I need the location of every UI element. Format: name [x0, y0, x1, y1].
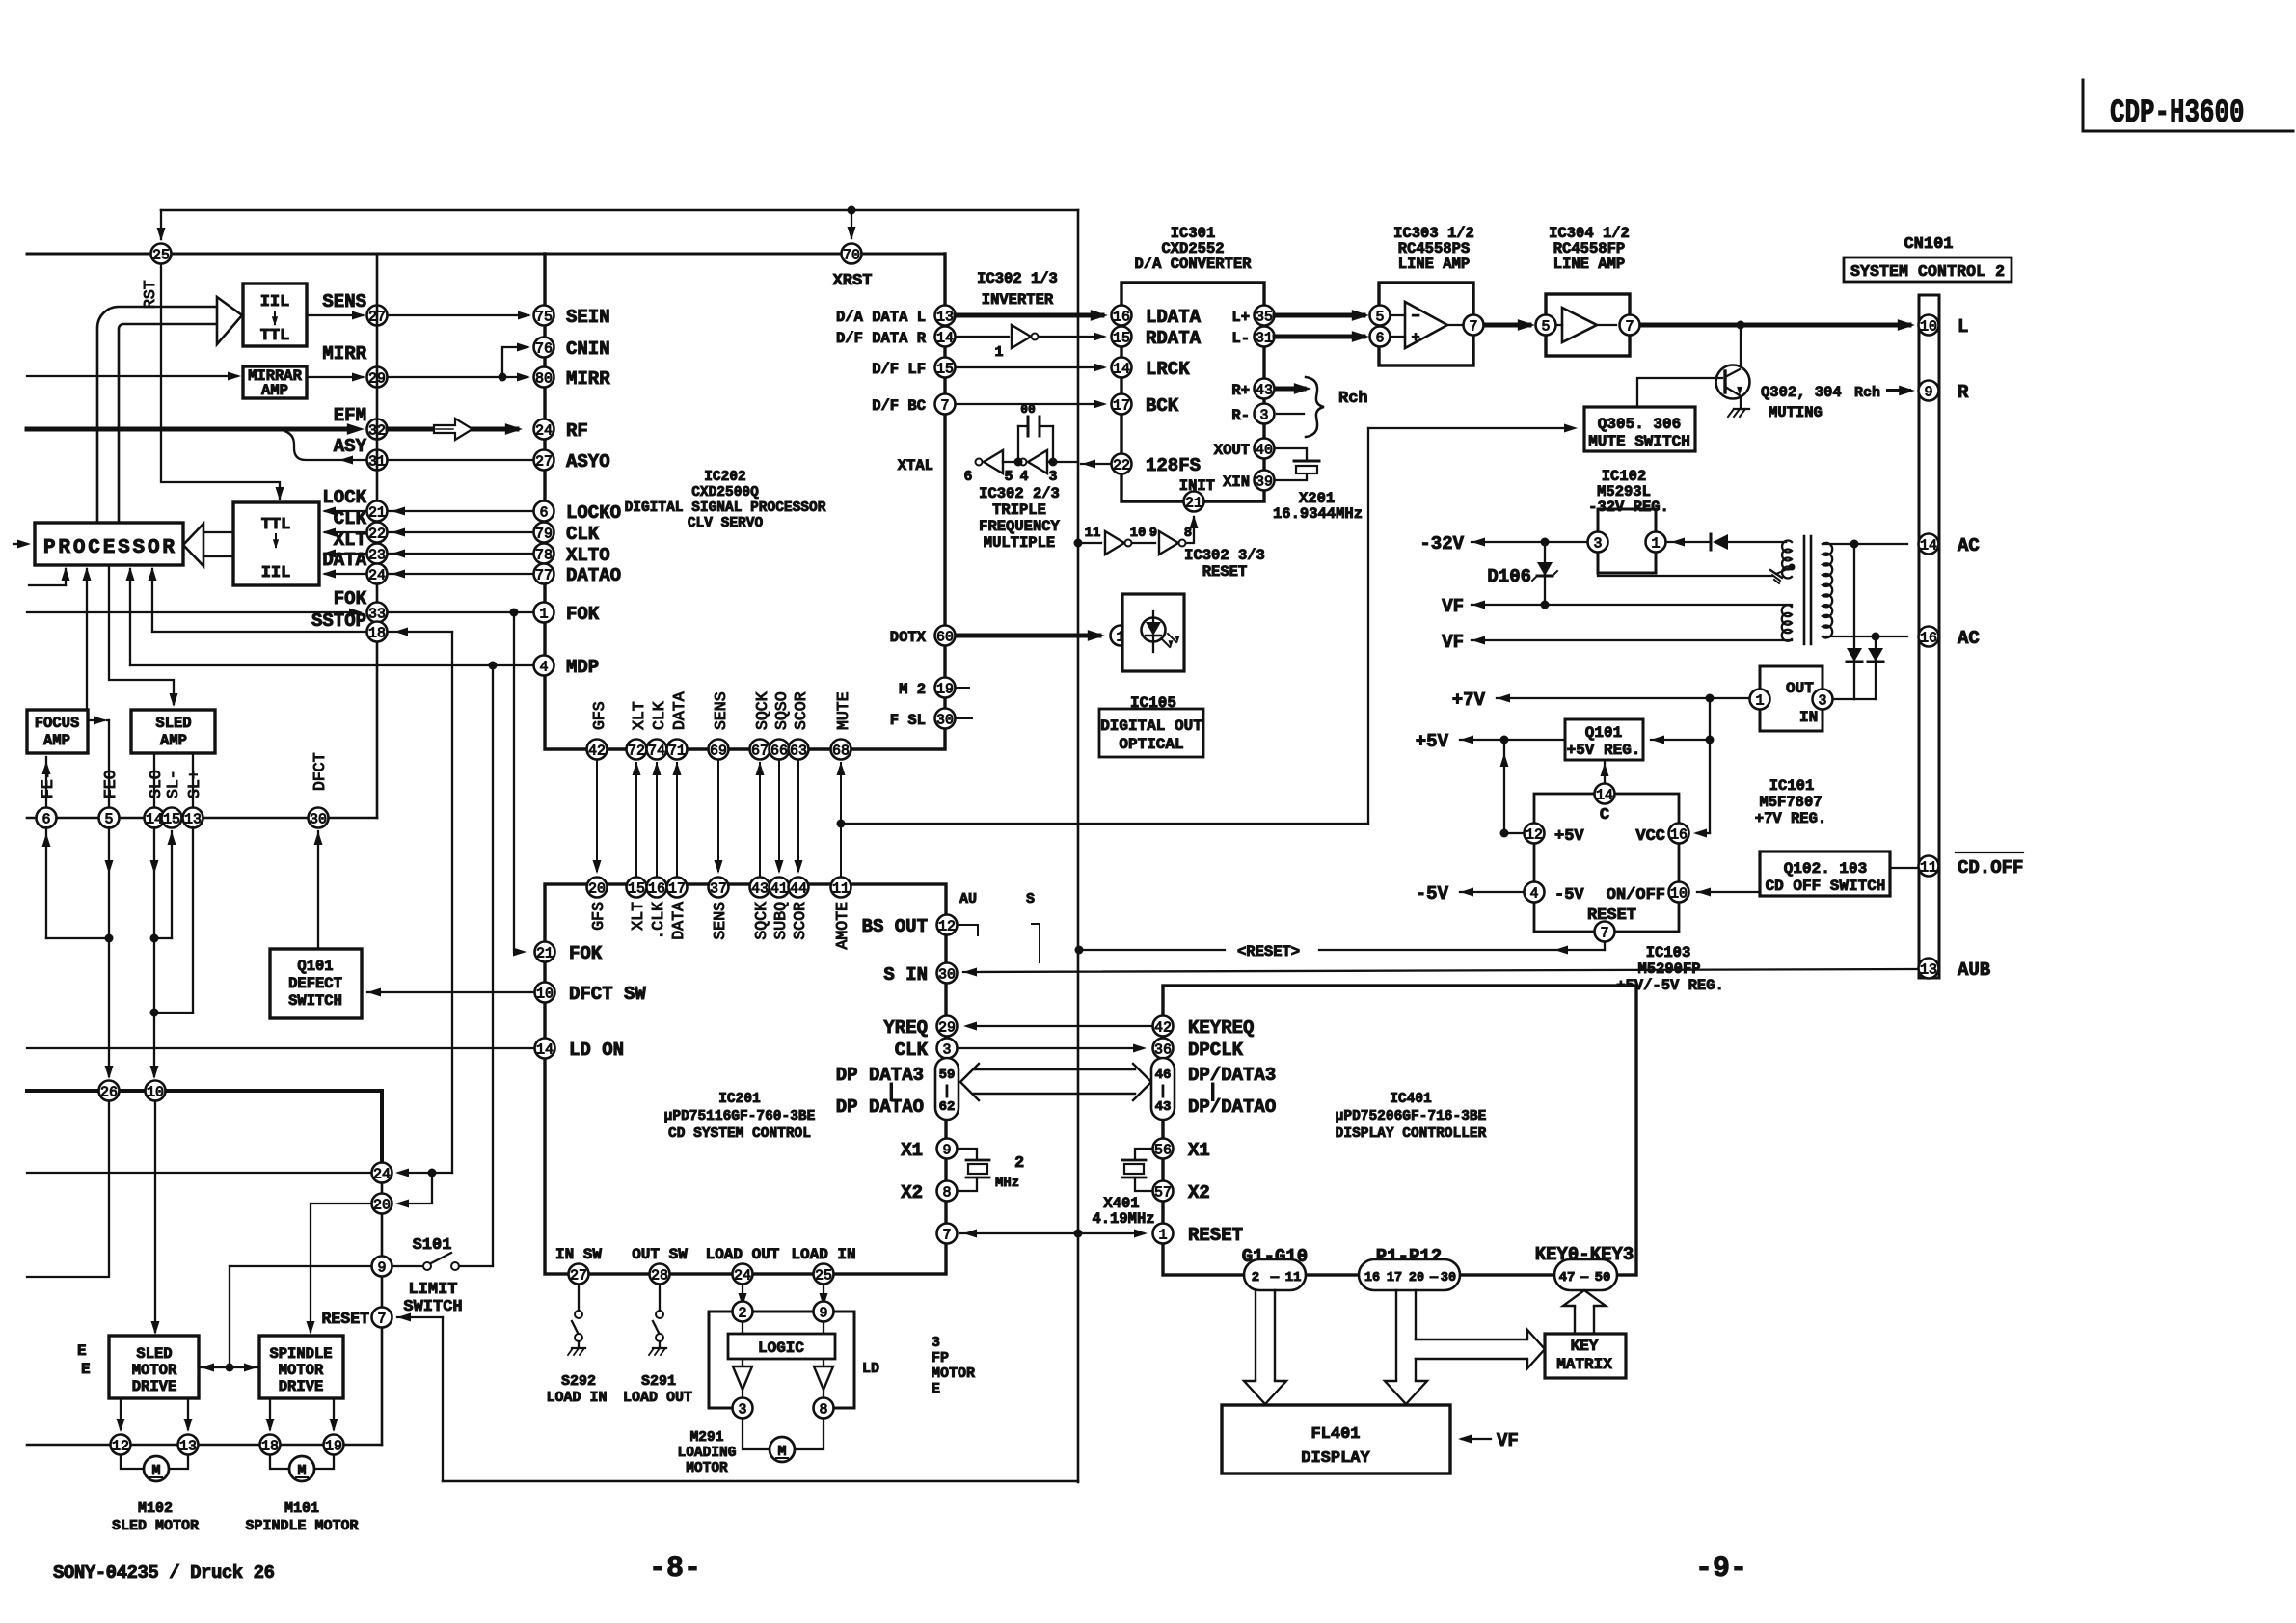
wire SCOR down 63 to 44 — [797, 760, 799, 871]
svg-text:DIGITAL OUT: DIGITAL OUT — [1100, 717, 1202, 735]
svg-text:R: R — [1958, 382, 1969, 403]
svg-text:9: 9 — [942, 1142, 951, 1158]
node IC102 pin 3 — [1588, 532, 1608, 553]
svg-text:24: 24 — [734, 1267, 751, 1284]
block IC105 — [1122, 594, 1184, 671]
svg-text:AMP: AMP — [43, 732, 70, 749]
svg-text:CLK: CLK — [650, 701, 668, 730]
svg-text:1: 1 — [1158, 1227, 1167, 1243]
node junction dot RESET on central vertical — [1075, 946, 1084, 955]
svg-text:-5V: -5V — [1416, 883, 1449, 905]
svg-text:16: 16 — [1364, 1271, 1380, 1285]
svg-text:XLTO: XLTO — [566, 545, 610, 566]
svg-text:AC: AC — [1958, 628, 1980, 649]
svg-text:CD SYSTEM CONTROL: CD SYSTEM CONTROL — [668, 1126, 811, 1142]
svg-text:—: — — [1429, 1271, 1439, 1285]
svg-text:AMOTE: AMOTE — [833, 902, 851, 950]
wire mute line into mute switch — [1368, 427, 1572, 429]
svg-text:SQCK: SQCK — [752, 902, 770, 940]
wire Q101 bottom from pin14 C — [1604, 760, 1606, 783]
node IC201 pin 20 GFS — [587, 878, 608, 898]
svg-text:74: 74 — [648, 743, 665, 759]
svg-text:66: 66 — [770, 743, 788, 759]
svg-text:5: 5 — [1004, 469, 1013, 485]
svg-text:DIGITAL SIGNAL PROCESSOR: DIGITAL SIGNAL PROCESSOR — [625, 500, 826, 516]
wire FOK row from left edge — [27, 611, 352, 613]
svg-text:18: 18 — [368, 625, 386, 641]
title CDP-H3600 — [2110, 95, 2245, 132]
svg-text:SL-: SL- — [164, 770, 182, 798]
wire PROCESSOR to FOCUS AMP — [86, 569, 88, 710]
wire SL+ pin13 up to SLED AMP — [192, 753, 194, 808]
node logic pin 3 — [733, 1398, 753, 1419]
wire L+ thick 35 to 5 — [1275, 313, 1364, 318]
svg-text:CDP-H3600: CDP-H3600 — [2110, 95, 2245, 132]
svg-text:MOTOR: MOTOR — [686, 1461, 728, 1476]
wire LOCK row — [325, 510, 366, 512]
wire y=263 long line through pin 25 and IC202 top edge — [27, 253, 945, 256]
svg-text:43: 43 — [751, 880, 769, 897]
op-amp triangle IC304 — [1562, 308, 1597, 342]
svg-text:LINE AMP: LINE AMP — [1553, 256, 1625, 273]
block SPINDLE MOTOR DRIVE — [259, 1336, 343, 1398]
svg-text:MOTOR: MOTOR — [132, 1362, 177, 1379]
svg-text:D/A CONVERTER: D/A CONVERTER — [1135, 256, 1253, 273]
block Q101 DEFECT SWITCH — [270, 949, 362, 1018]
svg-text:25: 25 — [815, 1267, 832, 1284]
wire SSTOP branch down x=469 — [451, 632, 453, 1173]
svg-text:C: C — [1600, 806, 1609, 825]
rectifier diode 1 — [1853, 544, 1855, 699]
block PROCESSOR — [35, 523, 183, 565]
svg-text:MIRR: MIRR — [566, 368, 610, 390]
node IC304 pin 5 — [1536, 315, 1556, 336]
svg-text:17: 17 — [1387, 1271, 1402, 1285]
svg-text:15: 15 — [936, 361, 954, 377]
node CN101 pin 9 R — [1919, 381, 1939, 401]
svg-text:62: 62 — [939, 1099, 956, 1115]
wire bottom RESET return y=1536 — [443, 1480, 1078, 1483]
node IC202 pin 6 LOCKO — [534, 501, 554, 522]
bus arrow P1-P12 to FL401 — [1395, 1290, 1397, 1381]
wire +5V down to pin12 — [1503, 740, 1505, 833]
node junction dot at pin70 drop — [848, 206, 856, 215]
svg-text:75: 75 — [535, 309, 553, 325]
svg-text:17: 17 — [1113, 397, 1130, 414]
svg-text:1: 1 — [539, 606, 548, 622]
block logic enclosure — [709, 1312, 854, 1408]
svg-text:39: 39 — [1256, 473, 1273, 490]
wire thick row y=1131 through pins 26 10 — [27, 1089, 382, 1093]
svg-text:PROCESSOR: PROCESSOR — [43, 537, 175, 559]
op IC301 D/A converter box — [1121, 283, 1264, 501]
node IC201 pin 16 .CLK — [647, 878, 667, 898]
svg-text:7: 7 — [1625, 318, 1634, 335]
wire drop to pin 70 — [851, 210, 852, 238]
svg-text:3: 3 — [738, 1401, 746, 1418]
node junction dot mute branch — [837, 820, 846, 828]
svg-text:M291: M291 — [690, 1430, 724, 1446]
bus branch to KEY MATRIX — [1416, 1339, 1527, 1340]
symbol hollow flow arrow on EFM line — [434, 419, 473, 440]
node IC201 pin 41 SUBQ — [770, 878, 790, 898]
svg-text:46: 46 — [1155, 1068, 1172, 1083]
bus DP DATA bidirectional — [960, 1064, 979, 1100]
svg-text:7: 7 — [1600, 925, 1608, 941]
svg-text:42: 42 — [588, 743, 606, 759]
svg-text:4: 4 — [1529, 885, 1538, 902]
wire FOK pin33 to pin1 — [388, 611, 533, 613]
svg-text:INVERTER: INVERTER — [982, 291, 1054, 309]
switch S291 LOAD OUT — [659, 1285, 661, 1310]
svg-text:R-: R- — [1231, 407, 1250, 424]
svg-text:—: — — [1580, 1270, 1589, 1285]
motor M102 sled — [121, 1455, 143, 1469]
svg-text:S101: S101 — [413, 1236, 452, 1255]
svg-text:13: 13 — [179, 1438, 197, 1454]
node IC103 pin 12 — [1525, 824, 1545, 844]
svg-text:7: 7 — [942, 1227, 951, 1243]
svg-text:RESET: RESET — [1188, 1225, 1243, 1246]
node IC103 pin 7 — [1595, 922, 1615, 942]
wire secondary top to AC pin 14 — [1823, 543, 1907, 545]
svg-text:67: 67 — [751, 743, 769, 759]
wire connector column vertical x=391 — [376, 254, 379, 818]
wire PROCESSOR to MDP line — [129, 569, 131, 665]
svg-text:4: 4 — [1019, 469, 1028, 485]
svg-text:E: E — [77, 1342, 87, 1360]
svg-text:X1: X1 — [1188, 1140, 1210, 1161]
node pin 25 — [151, 244, 172, 264]
wire DFCT up from defect switch — [317, 831, 319, 949]
svg-text:9: 9 — [1149, 526, 1157, 541]
svg-text:8: 8 — [819, 1401, 827, 1418]
node IC202 pin 80 MIRR — [534, 367, 554, 388]
inverter 1 of IC302 — [956, 336, 1009, 338]
wire stub pin 19 — [957, 687, 969, 689]
svg-text:72: 72 — [628, 743, 645, 759]
svg-text:FOK: FOK — [566, 604, 600, 625]
wire AUB line — [963, 969, 1917, 972]
svg-text:MHz: MHz — [995, 1176, 1019, 1191]
svg-text:LOADING: LOADING — [678, 1446, 737, 1461]
svg-text:3: 3 — [932, 1335, 940, 1351]
block FL401 DISPLAY — [1222, 1405, 1450, 1474]
svg-text:1: 1 — [1755, 692, 1764, 709]
block IC103 outline — [1534, 794, 1679, 932]
svg-text:XRST: XRST — [833, 272, 873, 290]
svg-text:FOK: FOK — [569, 943, 603, 964]
wire LD ON line — [27, 1047, 533, 1049]
svg-text:6: 6 — [1375, 330, 1384, 346]
svg-text:BCK: BCK — [1146, 395, 1179, 417]
node IC201 pin 15 XLT — [627, 878, 647, 898]
node junction dot Q101 branch — [1706, 736, 1715, 744]
svg-text:S: S — [1026, 891, 1035, 907]
svg-text:LOGIC: LOGIC — [758, 1339, 804, 1357]
svg-text:63: 63 — [790, 743, 807, 759]
wire BCK row — [956, 403, 1103, 405]
svg-text:TRIPLE: TRIPLE — [992, 501, 1046, 519]
node logic pin 2 — [733, 1302, 753, 1322]
svg-text:12: 12 — [938, 918, 956, 934]
node pin 32 EFM — [367, 419, 388, 440]
wire SLO down to pin 10 — [153, 827, 155, 1076]
svg-text:5: 5 — [1375, 309, 1384, 325]
svg-text:XIN: XIN — [1223, 473, 1250, 491]
node CN101 pin 13 AUB — [1919, 959, 1939, 979]
svg-text:VF: VF — [1442, 596, 1464, 617]
wire KEYREQ 42 to 29 — [974, 1025, 1152, 1027]
node IC201 pin 7 RESET — [937, 1224, 958, 1244]
node junction dot SLO — [150, 934, 159, 943]
svg-text:14: 14 — [536, 1041, 554, 1058]
svg-text:24: 24 — [368, 567, 386, 583]
svg-text:LINE AMP: LINE AMP — [1398, 256, 1470, 273]
svg-text:LIMIT: LIMIT — [408, 1281, 457, 1299]
svg-text:SCOR: SCOR — [791, 902, 809, 940]
svg-text:35: 35 — [1256, 309, 1273, 325]
svg-text:18: 18 — [261, 1438, 279, 1454]
node IC202 pin 75 SEIN — [534, 306, 554, 326]
block SYSTEM CONTROL 2 — [1844, 257, 2012, 282]
svg-text:<RESET>: <RESET> — [1237, 943, 1300, 960]
svg-text:31: 31 — [1256, 330, 1273, 346]
crystal X202 — [959, 1149, 977, 1159]
svg-text:3: 3 — [1259, 407, 1268, 423]
svg-text:RST: RST — [141, 280, 159, 309]
wire between motor drives — [199, 1366, 259, 1368]
svg-text:24: 24 — [535, 422, 553, 439]
svg-text:+5V REG.: +5V REG. — [1567, 742, 1641, 759]
svg-text:IC302 2/3: IC302 2/3 — [979, 485, 1060, 502]
svg-text:MATRIX: MATRIX — [1556, 1356, 1612, 1373]
svg-text:5: 5 — [104, 811, 113, 827]
svg-text:SYSTEM CONTROL 2: SYSTEM CONTROL 2 — [1850, 262, 2005, 281]
svg-text:Q101: Q101 — [297, 958, 333, 975]
svg-text:MUTE: MUTE — [834, 691, 852, 730]
block KEY MATRIX — [1545, 1334, 1626, 1378]
node IC401 pin 42 KEYREQ — [1153, 1016, 1174, 1037]
svg-text:LOAD IN: LOAD IN — [791, 1246, 855, 1263]
wire SUBQ down 66 to 41 — [778, 760, 780, 871]
svg-text:IC201: IC201 — [718, 1092, 761, 1107]
wire RST from 25 down to TTL-IIL box — [161, 264, 280, 500]
node IC103 pin 10 — [1669, 882, 1689, 903]
wire PROCESSOR bottom stub a — [29, 584, 66, 586]
svg-text:50: 50 — [1595, 1270, 1611, 1285]
motor M101 spindle — [270, 1455, 288, 1469]
svg-text:XTAL: XTAL — [898, 457, 933, 474]
wire SENS down 69 to 37 — [717, 760, 719, 871]
motor M291 loading — [743, 1419, 769, 1449]
svg-text:76: 76 — [535, 340, 553, 357]
wire SENS from IIL-TTL to pin 27 — [307, 314, 363, 316]
node junction dot drives — [226, 1364, 234, 1372]
svg-text:20: 20 — [373, 1197, 391, 1213]
wire R+ thick stub — [1277, 387, 1304, 392]
node pin 24 DATA — [367, 564, 388, 584]
svg-text:59: 59 — [939, 1068, 956, 1083]
node pin 29 MIRR — [367, 367, 388, 388]
svg-text:RF: RF — [566, 420, 588, 442]
svg-text:DP/DATAO: DP/DATAO — [1188, 1096, 1276, 1118]
op IC304 line amp box — [1546, 294, 1630, 356]
svg-text:VF: VF — [1442, 632, 1464, 653]
switch S292 LOAD IN — [578, 1285, 580, 1310]
svg-text:FREQUENCY: FREQUENCY — [979, 518, 1060, 535]
transformer secondary winding — [1823, 543, 1832, 638]
node IC301 pin 15 RDATA — [1112, 327, 1132, 347]
svg-text:LOAD OUT: LOAD OUT — [706, 1246, 780, 1263]
svg-text:22: 22 — [368, 526, 386, 542]
wire SENS pin27 to pin75 — [388, 314, 528, 316]
svg-text:11: 11 — [832, 880, 850, 897]
block IIL to TTL converter — [243, 284, 307, 346]
overline CD.OFF — [1956, 852, 2023, 853]
wire IC102 pin3 to transformer tap — [1598, 554, 1772, 576]
svg-text:47: 47 — [1559, 1270, 1576, 1285]
svg-text:YREQ: YREQ — [883, 1017, 928, 1039]
svg-text:SPINDLE: SPINDLE — [269, 1345, 332, 1363]
block IC101 7V regulator — [1760, 666, 1823, 731]
node CN101 pin 14 AC — [1919, 534, 1939, 555]
svg-text:2: 2 — [738, 1305, 746, 1321]
wire spindle drive outputs — [269, 1398, 271, 1429]
svg-text:10: 10 — [1670, 885, 1688, 902]
crystal X201 — [1275, 448, 1307, 460]
svg-text:MOTOR: MOTOR — [932, 1366, 975, 1382]
svg-text:Rch: Rch — [1338, 390, 1368, 408]
svg-text:27: 27 — [535, 453, 553, 470]
diode D101 series — [1710, 534, 1713, 550]
wire ASY branch curve from EFM line — [284, 431, 376, 460]
node pin 9 limit — [372, 1257, 392, 1277]
node IC201 pin 17 DATA — [667, 878, 688, 898]
svg-text:20: 20 — [588, 880, 606, 897]
svg-text:10: 10 — [1920, 318, 1937, 335]
svg-text:80: 80 — [535, 370, 553, 387]
svg-text:LOAD OUT: LOAD OUT — [623, 1390, 692, 1406]
svg-text:29: 29 — [938, 1019, 956, 1036]
wire LOAD IN 25 down to logic — [823, 1285, 824, 1304]
wire secondary bottom to AC pin 16 — [1823, 636, 1907, 637]
wire FOK branch down to IC201 pin21 — [514, 612, 523, 952]
op-amp triangle IC303 — [1405, 302, 1447, 348]
node IC202 pin 77 DATAO — [534, 564, 554, 584]
svg-text:MOTOR: MOTOR — [279, 1362, 324, 1379]
svg-text:AU: AU — [959, 891, 977, 907]
svg-text:IC103: IC103 — [1646, 944, 1691, 961]
wire +7V down to VCC — [1709, 698, 1711, 833]
svg-text:SLED: SLED — [136, 1345, 172, 1363]
svg-text:KEYREQ: KEYREQ — [1188, 1017, 1254, 1039]
node pin 23 XLT — [367, 544, 388, 564]
node IC202 pin 1 FOK — [534, 603, 554, 623]
svg-text:+7V REG.: +7V REG. — [1755, 810, 1826, 827]
svg-text:4: 4 — [539, 659, 548, 675]
wire sled drive outputs — [120, 1398, 122, 1429]
svg-text:-9-: -9- — [1695, 1553, 1747, 1585]
svg-text:L: L — [1958, 316, 1968, 338]
wire FE- pin6 up into FOCUS AMP — [45, 757, 47, 808]
svg-text:FL401: FL401 — [1310, 1425, 1360, 1444]
svg-text:XLT: XLT — [629, 902, 647, 931]
wire DOTX thick to IC105 — [957, 634, 1099, 638]
svg-text:M5F7807: M5F7807 — [1759, 794, 1822, 811]
svg-text:FOK: FOK — [334, 588, 367, 609]
svg-text:CLK: CLK — [566, 524, 600, 545]
svg-text:70: 70 — [843, 247, 860, 263]
node junction dot D106 — [1541, 538, 1550, 547]
node IC202 pin 4 MDP — [534, 656, 554, 676]
svg-text:1: 1 — [994, 344, 1003, 361]
svg-text:D/F DATA R: D/F DATA R — [836, 330, 927, 347]
svg-text:LDATA: LDATA — [1146, 307, 1202, 328]
node pin 27 SENS — [367, 306, 388, 326]
svg-text:42: 42 — [1154, 1019, 1172, 1036]
svg-text:7: 7 — [377, 1311, 386, 1327]
wire mute line horizontal to AMOTE — [841, 823, 1368, 825]
svg-text:µPD75206GF-716-3BE: µPD75206GF-716-3BE — [1336, 1109, 1487, 1124]
svg-text:−: − — [1411, 309, 1419, 325]
node IC201 pin 37 SENS — [709, 878, 729, 898]
svg-text:+5V: +5V — [1554, 827, 1584, 846]
wire row y=848 connector line — [27, 817, 377, 820]
svg-text:CXD2500Q: CXD2500Q — [691, 485, 759, 500]
svg-text:MUTE SWITCH: MUTE SWITCH — [1588, 433, 1690, 450]
node pin 70 XRST on IC202 top edge — [842, 244, 862, 264]
svg-text:CLK: CLK — [334, 508, 367, 529]
wire pin26 down and out left — [27, 1102, 109, 1277]
node IC301 pin 22 128FS — [1112, 454, 1132, 474]
node junction dot MIRR to CNIN — [499, 373, 507, 382]
node IC202 pin 27 ASYO — [534, 450, 554, 471]
inverter triangles of logic — [742, 1359, 743, 1366]
wire SSTOP row from PROCESSOR — [152, 631, 452, 633]
svg-text:DATA: DATA — [669, 902, 688, 940]
svg-text:10: 10 — [1130, 526, 1147, 541]
svg-text:S291: S291 — [641, 1373, 676, 1390]
svg-text:SUBQ: SUBQ — [771, 902, 790, 940]
svg-text:SENS: SENS — [712, 691, 730, 730]
svg-text:2: 2 — [1252, 1270, 1259, 1285]
block Q102 103 CD OFF SWITCH — [1760, 852, 1890, 896]
wire CLK row — [325, 531, 366, 533]
wire pin20 branch to spindle drive — [311, 1204, 371, 1332]
transformer T101 primary top winding — [1782, 541, 1792, 579]
node IC401 pin 56 X1 — [1153, 1139, 1174, 1159]
wire pin10 down to sled motor drive — [154, 1102, 156, 1332]
svg-text:14: 14 — [936, 330, 954, 346]
node pin 24 — [372, 1163, 392, 1183]
node IC303 pin 6 — [1370, 327, 1391, 347]
svg-text:IN: IN — [1799, 709, 1818, 726]
svg-text:F SL: F SL — [890, 712, 926, 729]
svg-text:3: 3 — [1048, 469, 1057, 485]
svg-text:9: 9 — [819, 1305, 827, 1321]
capacitor of oscillator — [1017, 426, 1019, 462]
node IC202 pin 24 RF — [534, 419, 554, 440]
svg-text:CNIN: CNIN — [566, 338, 610, 360]
node junction dot L to muting — [1737, 321, 1745, 330]
svg-text:+7V: +7V — [1452, 690, 1486, 711]
svg-text:VF: VF — [1497, 1430, 1519, 1451]
svg-text:9: 9 — [1924, 384, 1932, 400]
node IC301 pin 14 LRCK — [1112, 358, 1132, 378]
svg-text:TTL: TTL — [261, 516, 291, 534]
svg-text:DFCT: DFCT — [311, 752, 329, 791]
